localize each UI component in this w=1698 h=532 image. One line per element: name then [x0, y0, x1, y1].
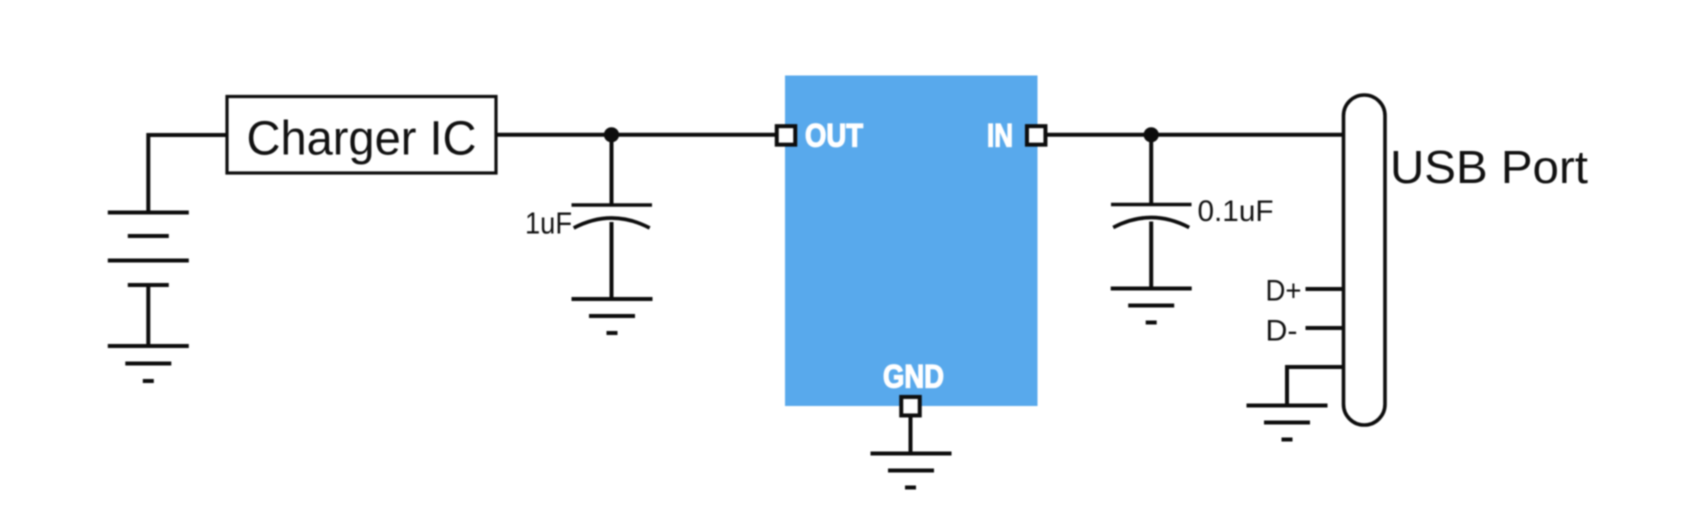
wire: battery positive up and over to Charger IC: [148, 135, 227, 213]
battery B1: [108, 213, 189, 286]
pin OUT (U2): [777, 126, 796, 144]
svg-text:D+: D+: [1266, 275, 1302, 308]
ground (USB): [1247, 406, 1328, 440]
svg-text:0.1uF: 0.1uF: [1198, 195, 1274, 228]
wire: Charger IC output to regulator OUT pin: [496, 133, 776, 137]
ground (C2): [1111, 289, 1192, 323]
wire: GND pin to ground: [909, 416, 913, 454]
wire: USB shield to ground: [1287, 367, 1345, 406]
Charger IC U1: [227, 97, 496, 174]
junction node: IN net: [1144, 127, 1159, 142]
pin GND (U2): [901, 397, 920, 416]
ground (C1): [572, 299, 653, 333]
capacitor C2: [1111, 205, 1192, 228]
svg-text:IN: IN: [987, 118, 1013, 154]
wire: C2 to ground: [1149, 222, 1153, 289]
wire: regulator IN pin to USB port: [1046, 133, 1344, 137]
svg-text:OUT: OUT: [805, 118, 863, 154]
svg-text:Charger IC: Charger IC: [247, 113, 477, 166]
wire: battery negative to ground: [146, 285, 150, 346]
USB port connector J1: [1344, 95, 1386, 425]
wire: junction down to C1: [610, 135, 614, 205]
wire: D- to USB port: [1306, 326, 1346, 330]
svg-text:D-: D-: [1266, 315, 1298, 348]
pin IN (U2): [1027, 126, 1046, 144]
svg-text:GND: GND: [883, 358, 944, 394]
wire: D+ to USB port: [1306, 287, 1346, 291]
svg-text:USB Port: USB Port: [1390, 141, 1588, 193]
wire: C1 to ground: [610, 222, 614, 299]
ground (U2 GND): [871, 454, 952, 488]
wire: junction down to C2: [1149, 135, 1153, 205]
svg-text:1uF: 1uF: [525, 206, 572, 241]
junction node: OUT net: [604, 127, 619, 142]
capacitor C1: [572, 205, 653, 228]
ground (battery): [108, 346, 189, 381]
regulator U2 (blue body): [785, 76, 1038, 407]
